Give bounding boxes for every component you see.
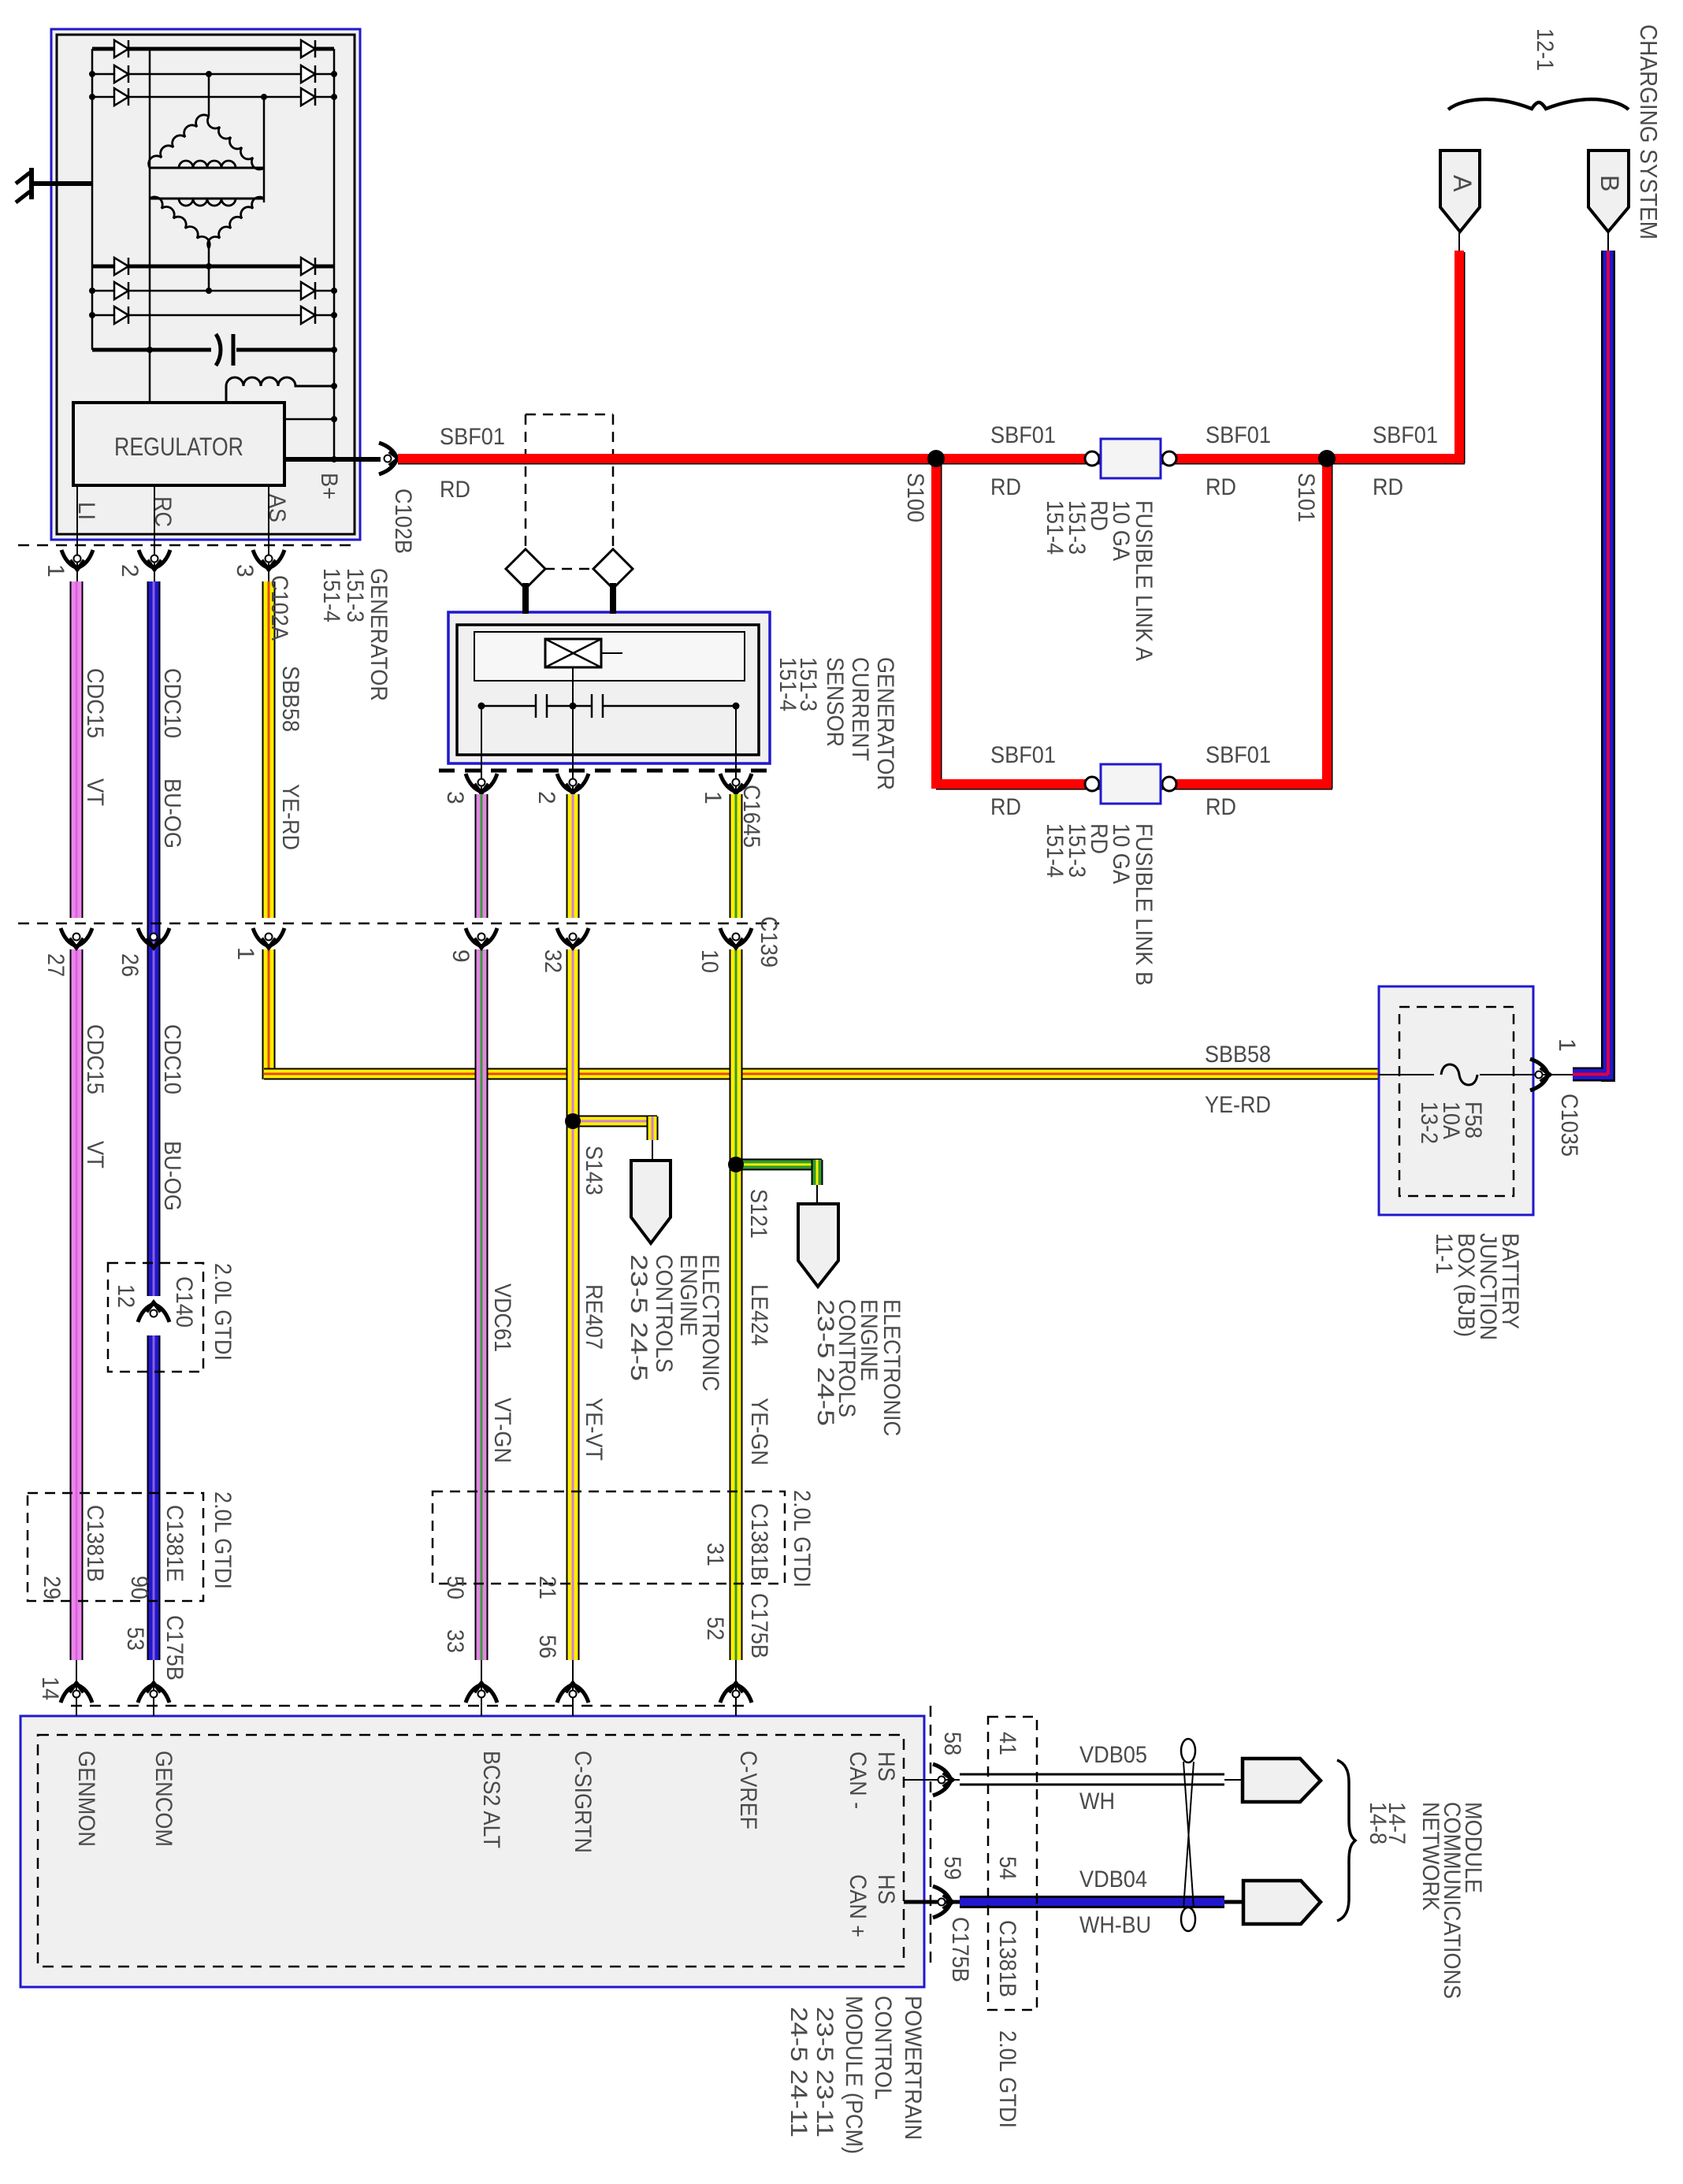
svg-text:58: 58 — [939, 1732, 965, 1755]
connector C175B dashed boundary — [71, 1705, 745, 1707]
junction S101 — [1318, 450, 1336, 467]
off-page connector A — [1440, 150, 1480, 232]
junction S143 on RE407 — [565, 1113, 581, 1129]
svg-text:151-4: 151-4 — [318, 568, 344, 622]
svg-text:MODULE (PCM): MODULE (PCM) — [841, 1996, 867, 2154]
svg-text:CDC15: CDC15 — [82, 668, 108, 738]
connector pentagon electronic engine controls (S121) — [798, 1204, 838, 1287]
svg-text:VT: VT — [82, 778, 108, 806]
svg-text:BCS2 ALT: BCS2 ALT — [478, 1751, 504, 1848]
svg-text:C1381B: C1381B — [994, 1920, 1020, 1997]
svg-text:CDC10: CDC10 — [159, 668, 185, 738]
svg-text:WH-BU: WH-BU — [1079, 1912, 1151, 1938]
svg-text:90: 90 — [126, 1576, 152, 1599]
svg-text:AS: AS — [264, 494, 290, 522]
svg-text:CHARGING SYSTEM: CHARGING SYSTEM — [1635, 24, 1663, 240]
regulator right stub to bus — [284, 418, 334, 421]
svg-text:21: 21 — [534, 1576, 560, 1599]
svg-text:41: 41 — [994, 1732, 1020, 1755]
twisted pair symbol — [1181, 1739, 1195, 1931]
arrow C139 x=727 — [557, 928, 589, 946]
svg-text:2.0L GTDI: 2.0L GTDI — [210, 1491, 236, 1589]
svg-text:C102B: C102B — [390, 488, 416, 554]
svg-text:C-VREF: C-VREF — [735, 1751, 761, 1829]
ground — [16, 168, 92, 202]
connector C1381B/C1381E dashed box left — [28, 1493, 203, 1601]
arrow C1645 pin 2 — [557, 774, 589, 792]
wire SBB58 YE-RD from generator pin 3 — [262, 581, 276, 918]
svg-text:C1035: C1035 — [1556, 1094, 1582, 1157]
arrow C139 x=611 — [466, 928, 497, 946]
generator internal bus wires — [92, 49, 334, 459]
svg-text:B+: B+ — [316, 473, 342, 500]
sensor clamp stubs — [522, 583, 529, 614]
arrow C139 x=934 — [720, 928, 752, 946]
svg-text:C1381E: C1381E — [162, 1505, 188, 1582]
svg-text:1: 1 — [700, 791, 726, 804]
stator winding delta 2 — [150, 198, 264, 200]
svg-text:CDC10: CDC10 — [159, 1024, 185, 1094]
svg-text:SBF01: SBF01 — [440, 424, 505, 450]
diode pair row y=369 — [114, 282, 128, 299]
junction S100 — [927, 450, 945, 467]
svg-text:C139: C139 — [756, 916, 782, 968]
stator winding delta 1 — [149, 115, 209, 168]
svg-text:31: 31 — [702, 1543, 728, 1566]
svg-text:53: 53 — [122, 1627, 148, 1651]
svg-text:CONTROL: CONTROL — [870, 1996, 896, 2100]
network connector pentagon VDB04 — [1243, 1881, 1321, 1924]
svg-text:14-8: 14-8 — [1365, 1802, 1391, 1844]
brace over connectors A B — [1448, 99, 1629, 110]
diode pair row y=338 — [114, 258, 128, 275]
fusible link A — [1085, 439, 1176, 478]
svg-text:59: 59 — [939, 1856, 965, 1880]
diode pair row y=123 — [114, 88, 128, 106]
svg-text:VDB05: VDB05 — [1079, 1742, 1147, 1768]
diode pair row y=62 — [114, 40, 128, 58]
svg-text:VDB04: VDB04 — [1079, 1866, 1147, 1892]
svg-text:RD: RD — [1206, 474, 1236, 500]
svg-text:BU-OG: BU-OG — [159, 778, 185, 849]
connector C1381B dashed box right — [433, 1491, 785, 1584]
svg-text:50: 50 — [442, 1576, 468, 1599]
arrow C175B pin 52 — [720, 1684, 752, 1703]
connector C139 dashed boundary — [18, 923, 779, 925]
svg-text:9: 9 — [448, 949, 474, 963]
capacitor row in generator — [92, 334, 334, 366]
svg-text:C1381B: C1381B — [82, 1505, 108, 1582]
network connector pentagon VDB05 — [1243, 1759, 1321, 1802]
junction dots generator — [89, 71, 95, 77]
svg-text:GENMON: GENMON — [73, 1751, 99, 1847]
PCM pin lines — [76, 1660, 77, 1716]
connector C140 dashed box — [108, 1263, 203, 1372]
svg-text:YE-RD: YE-RD — [277, 784, 303, 850]
svg-text:RD: RD — [990, 474, 1021, 500]
svg-text:VT: VT — [82, 1141, 108, 1168]
svg-text:1: 1 — [43, 564, 69, 578]
svg-text:GENERATOR: GENERATOR — [872, 657, 898, 790]
HS CAN- pin 58 line — [904, 1779, 960, 1781]
svg-text:HS: HS — [873, 1874, 899, 1904]
svg-text:1: 1 — [232, 947, 258, 960]
svg-text:CAN +: CAN + — [845, 1874, 871, 1937]
wire LE424 YE-GN sensor pin 1 — [730, 794, 743, 918]
svg-text:11-1: 11-1 — [1431, 1233, 1457, 1274]
svg-text:CURRENT: CURRENT — [847, 657, 873, 761]
svg-text:23-5 23-11: 23-5 23-11 — [812, 2007, 838, 2138]
svg-text:S100: S100 — [902, 473, 928, 522]
svg-text:SBB58: SBB58 — [1205, 1042, 1271, 1068]
svg-text:151-4: 151-4 — [1042, 823, 1068, 878]
svg-text:23-5 24-5: 23-5 24-5 — [626, 1254, 652, 1381]
wire SBF03 BU-RD from connector B — [1573, 251, 1615, 1082]
svg-text:24-5 24-11: 24-5 24-11 — [786, 2007, 812, 2138]
connector C102 dashed boundary — [18, 544, 359, 547]
svg-text:NETWORK: NETWORK — [1417, 1802, 1443, 1911]
svg-text:2.0L GTDI: 2.0L GTDI — [789, 1490, 815, 1588]
svg-text:56: 56 — [534, 1635, 560, 1658]
svg-text:C175B: C175B — [162, 1615, 188, 1681]
generator current sensor box — [448, 612, 770, 763]
sensor pin lines — [481, 706, 482, 794]
sensor internal capacitors line — [481, 694, 736, 718]
svg-text:CDC15: CDC15 — [82, 1024, 108, 1094]
svg-text:RD: RD — [1206, 794, 1236, 820]
wire VDB04 WH-BU — [960, 1896, 1224, 1908]
svg-text:C1645: C1645 — [738, 785, 764, 848]
arrow C102B B+ — [379, 443, 397, 474]
svg-text:ENGINE: ENGINE — [675, 1254, 701, 1336]
svg-text:32: 32 — [540, 949, 566, 973]
svg-text:YE-VT: YE-VT — [581, 1398, 607, 1461]
junction S121 on LE424 — [728, 1157, 744, 1172]
svg-text:VT-GN: VT-GN — [489, 1398, 515, 1463]
svg-text:S101: S101 — [1293, 473, 1319, 522]
svg-text:2.0L GTDI: 2.0L GTDI — [210, 1263, 236, 1361]
svg-text:LE424: LE424 — [746, 1284, 772, 1346]
fuse F58 10A — [1379, 1064, 1533, 1085]
arrow C140 pin 12 — [138, 1304, 169, 1322]
svg-text:C102A: C102A — [266, 575, 292, 641]
svg-text:27: 27 — [43, 953, 69, 977]
svg-text:SBF01: SBF01 — [990, 422, 1056, 448]
powertrain control module (PCM) box — [20, 1716, 924, 1987]
svg-text:S143: S143 — [581, 1146, 607, 1195]
svg-text:YE-RD: YE-RD — [1205, 1092, 1271, 1118]
branch wire YE-GN from S121 to engine controls — [736, 1159, 822, 1171]
svg-text:GENCOM: GENCOM — [150, 1751, 176, 1847]
svg-text:SBF01: SBF01 — [990, 742, 1056, 768]
wire VDB05 WH twisted pair — [960, 1774, 1224, 1776]
wire CDC10 BU-OG from generator pin 2 — [147, 581, 161, 1296]
svg-text:RD: RD — [990, 794, 1021, 820]
svg-text:10: 10 — [697, 949, 723, 973]
wire CDC15 VT from generator pin 1 — [70, 581, 84, 918]
C1035 pin line and arrow — [1533, 1074, 1573, 1075]
svg-text:CAN -: CAN - — [845, 1751, 871, 1809]
svg-text:2: 2 — [117, 564, 143, 578]
svg-text:3: 3 — [232, 564, 258, 578]
svg-text:SBF01: SBF01 — [1373, 422, 1438, 448]
svg-text:A: A — [1448, 175, 1477, 192]
svg-text:151-3: 151-3 — [342, 568, 368, 622]
svg-text:12: 12 — [113, 1284, 139, 1308]
svg-text:14: 14 — [37, 1677, 63, 1700]
off-page connector B — [1588, 150, 1629, 232]
connector C1645 thick dashed boundary — [439, 769, 770, 773]
svg-text:C175B: C175B — [746, 1593, 772, 1658]
arrow C102 pin 2 — [139, 550, 170, 568]
svg-text:12-1: 12-1 — [1532, 28, 1558, 71]
diode pair row y=94 — [114, 65, 128, 83]
arrow C139 x=195 — [138, 928, 169, 946]
regulator U1 — [73, 403, 284, 485]
connector pentagon electronic engine controls (S143) — [631, 1161, 671, 1243]
svg-text:29: 29 — [39, 1576, 65, 1599]
battery junction box (BJB) — [1379, 986, 1533, 1215]
svg-text:GENERATOR: GENERATOR — [366, 568, 392, 701]
svg-text:B: B — [1596, 175, 1624, 191]
HS CAN+ pin 59 line — [904, 1900, 960, 1904]
svg-text:REGULATOR: REGULATOR — [114, 433, 243, 461]
svg-text:C-SIGRTN: C-SIGRTN — [570, 1751, 596, 1853]
svg-text:C1381B: C1381B — [746, 1503, 772, 1580]
arrow C175B pin 14 — [61, 1684, 92, 1703]
svg-text:C175B: C175B — [947, 1917, 973, 1982]
arrow C1645 pin 1 — [720, 774, 752, 792]
svg-text:54: 54 — [994, 1856, 1020, 1880]
svg-text:SENSOR: SENSOR — [822, 657, 848, 747]
svg-text:23-5 24-5: 23-5 24-5 — [812, 1299, 838, 1426]
arrow C175B pin 56 — [557, 1684, 589, 1703]
arrow C175B pin 33 — [466, 1684, 497, 1703]
svg-text:33: 33 — [442, 1629, 468, 1653]
svg-text:SBF01: SBF01 — [1206, 422, 1271, 448]
svg-text:26: 26 — [117, 953, 143, 977]
svg-text:2.0L GTDI: 2.0L GTDI — [994, 2030, 1020, 2128]
svg-text:WH: WH — [1079, 1788, 1115, 1814]
arrow C102 pin 1 — [61, 550, 93, 568]
red battery feed SBF01 RD main bus — [398, 251, 1465, 789]
arrow C102 pin 3 — [253, 550, 284, 568]
svg-text:RC: RC — [150, 496, 176, 527]
svg-text:151-4: 151-4 — [1042, 500, 1068, 555]
svg-text:CONTROLS: CONTROLS — [651, 1254, 677, 1372]
svg-text:C140: C140 — [171, 1276, 197, 1328]
wire SBB58 YE-RD horizontal run to BJB — [264, 1068, 1379, 1080]
connector C1381B dashed box bottom right — [988, 1717, 1037, 2010]
rectifier diode rows — [92, 49, 334, 315]
svg-text:SBB58: SBB58 — [277, 666, 303, 732]
svg-text:RD: RD — [440, 477, 470, 503]
diode pair row y=400 — [114, 306, 128, 324]
svg-text:2: 2 — [533, 791, 559, 804]
svg-text:POWERTRAIN: POWERTRAIN — [900, 1996, 926, 2140]
wire RE407 YE-VT sensor pin 2 — [567, 794, 580, 918]
pin stubs LI RC AS — [76, 485, 78, 581]
sensor clamp diamonds — [506, 549, 545, 589]
svg-text:13-2: 13-2 — [1416, 1101, 1442, 1144]
svg-text:1: 1 — [1554, 1038, 1580, 1052]
branch wire YE-VT from S143 to engine controls — [573, 1116, 657, 1127]
inductor (choke) in generator — [226, 377, 334, 403]
sensor element X symbol — [545, 639, 622, 667]
svg-text:52: 52 — [702, 1617, 728, 1640]
wire VDC61 VT-GN sensor pin 3 — [475, 794, 489, 918]
arrow C139 x=341 — [253, 928, 284, 946]
svg-text:HS: HS — [873, 1751, 899, 1781]
arrow C1645 pin 3 — [466, 774, 497, 792]
svg-text:RE407: RE407 — [581, 1284, 607, 1350]
svg-text:VDC61: VDC61 — [489, 1283, 515, 1352]
svg-text:RD: RD — [1373, 474, 1403, 500]
arrow C139 x=97 — [61, 928, 92, 946]
svg-text:SBF01: SBF01 — [1206, 742, 1271, 768]
brace module communications network — [1337, 1760, 1355, 1921]
generator (alternator) outer box — [51, 29, 360, 540]
arrow C175B pin 53 — [138, 1684, 169, 1703]
svg-text:3: 3 — [442, 791, 468, 804]
svg-text:S121: S121 — [745, 1189, 771, 1239]
svg-text:LI: LI — [73, 502, 99, 520]
svg-text:BU-OG: BU-OG — [159, 1141, 185, 1211]
B+ output line — [284, 457, 381, 462]
svg-text:YE-GN: YE-GN — [746, 1398, 772, 1465]
fusible link B — [1085, 764, 1176, 804]
current sensor clamp dashed box — [526, 414, 613, 569]
svg-text:151-4: 151-4 — [775, 657, 801, 711]
